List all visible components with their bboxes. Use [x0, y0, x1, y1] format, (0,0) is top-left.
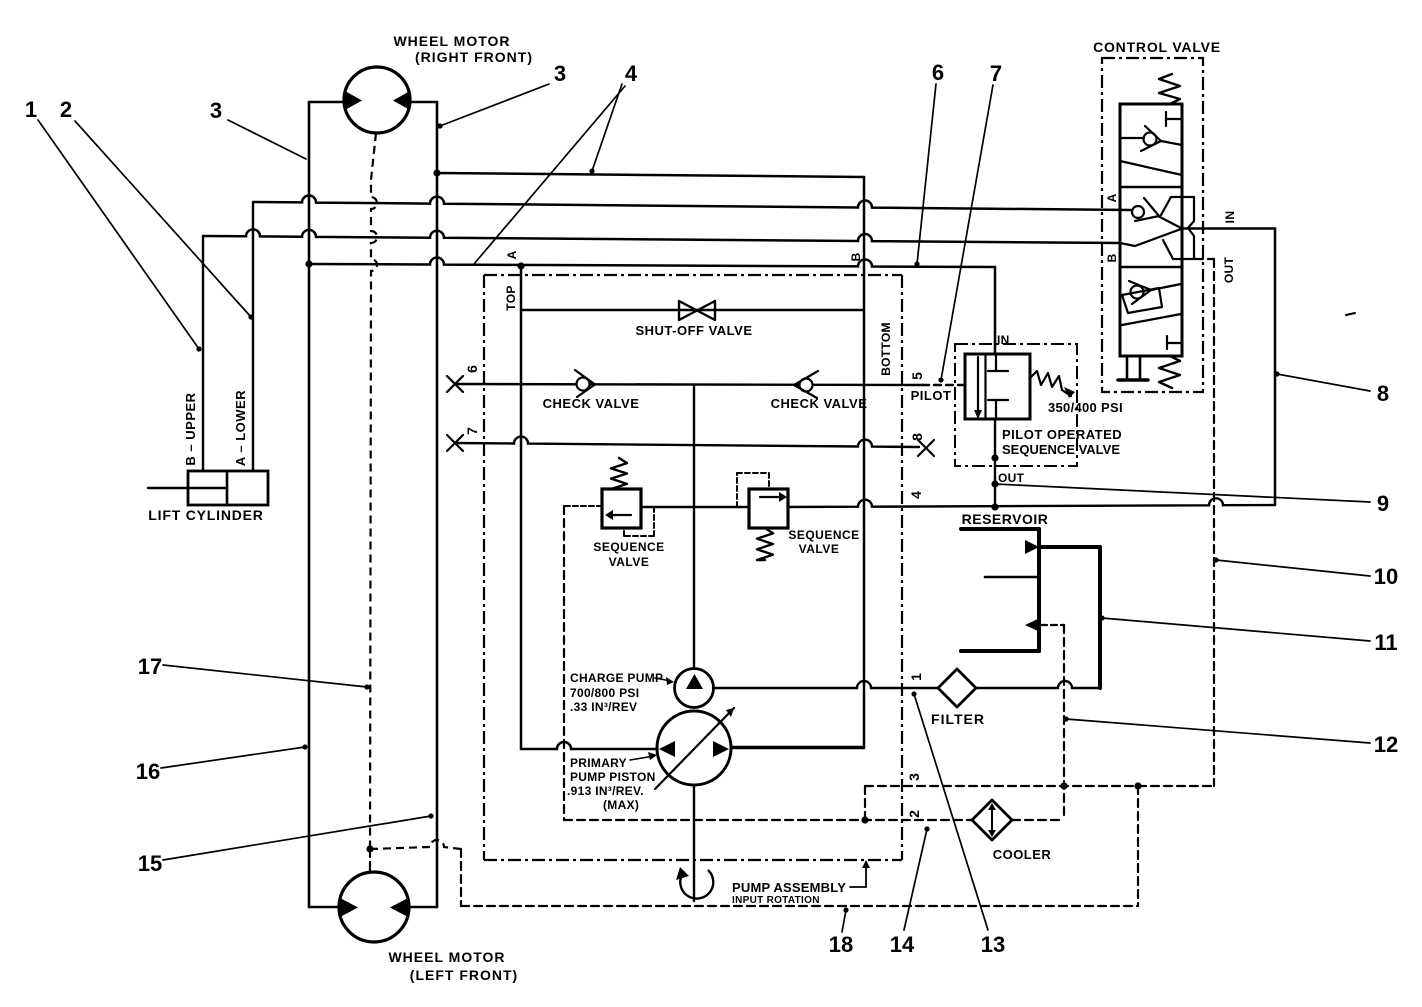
svg-text:CHECK VALVE: CHECK VALVE — [543, 396, 640, 411]
svg-text:(LEFT FRONT): (LEFT FRONT) — [410, 967, 518, 983]
svg-text:12: 12 — [1374, 732, 1398, 757]
svg-text:SEQUENCE VALVE: SEQUENCE VALVE — [1002, 442, 1120, 457]
svg-text:WHEEL MOTOR: WHEEL MOTOR — [393, 33, 510, 49]
svg-text:15: 15 — [138, 851, 162, 876]
svg-text:(MAX): (MAX) — [603, 798, 639, 812]
svg-text:3: 3 — [210, 98, 222, 123]
svg-text:2: 2 — [906, 810, 922, 818]
svg-text:1: 1 — [908, 673, 924, 681]
svg-text:B: B — [849, 252, 863, 261]
svg-text:PUMP PISTON: PUMP PISTON — [570, 770, 656, 784]
svg-text:8: 8 — [909, 433, 925, 441]
svg-text:.913 IN³/REV.: .913 IN³/REV. — [567, 784, 644, 798]
svg-text:A: A — [505, 250, 519, 259]
svg-text:11: 11 — [1374, 630, 1397, 655]
svg-text:FILTER: FILTER — [931, 711, 985, 727]
svg-text:B – UPPER: B – UPPER — [183, 392, 198, 465]
svg-text:IN: IN — [1223, 211, 1237, 224]
svg-text:INPUT ROTATION: INPUT ROTATION — [732, 895, 820, 906]
svg-text:4: 4 — [908, 491, 924, 499]
svg-text:COOLER: COOLER — [993, 847, 1052, 862]
svg-text:7: 7 — [464, 427, 480, 435]
svg-text:BOTTOM: BOTTOM — [879, 322, 893, 376]
svg-text:WHEEL MOTOR: WHEEL MOTOR — [388, 949, 505, 965]
svg-text:18: 18 — [829, 932, 853, 957]
svg-text:CONTROL VALVE: CONTROL VALVE — [1093, 39, 1221, 55]
svg-text:OUT: OUT — [998, 471, 1025, 485]
svg-text:CHECK VALVE: CHECK VALVE — [771, 396, 868, 411]
svg-text:CHARGE PUMP: CHARGE PUMP — [570, 671, 663, 685]
svg-text:PILOT OPERATED: PILOT OPERATED — [1002, 427, 1122, 442]
svg-text:B: B — [1105, 253, 1119, 262]
svg-text:.33 IN³/REV: .33 IN³/REV — [570, 700, 637, 714]
svg-text:PUMP ASSEMBLY: PUMP ASSEMBLY — [732, 880, 846, 895]
svg-text:8: 8 — [1377, 381, 1389, 406]
svg-text:6: 6 — [464, 365, 480, 373]
svg-text:PRIMARY: PRIMARY — [570, 756, 627, 770]
svg-text:2: 2 — [60, 97, 72, 122]
svg-text:VALVE: VALVE — [799, 542, 840, 556]
svg-text:7: 7 — [990, 61, 1002, 86]
svg-text:LIFT CYLINDER: LIFT CYLINDER — [148, 507, 263, 523]
svg-text:SEQUENCE: SEQUENCE — [788, 528, 859, 542]
svg-text:IN: IN — [997, 333, 1010, 347]
svg-text:1: 1 — [25, 97, 37, 122]
svg-text:14: 14 — [890, 932, 915, 957]
svg-text:RESERVOIR: RESERVOIR — [962, 511, 1049, 527]
svg-text:SHUT-OFF VALVE: SHUT-OFF VALVE — [635, 323, 752, 338]
svg-text:TOP: TOP — [504, 285, 518, 310]
svg-text:(RIGHT FRONT): (RIGHT FRONT) — [415, 49, 533, 65]
svg-text:OUT: OUT — [1222, 257, 1236, 284]
svg-text:3: 3 — [554, 61, 566, 86]
svg-text:17: 17 — [138, 654, 162, 679]
svg-text:SEQUENCE: SEQUENCE — [593, 540, 664, 554]
svg-text:13: 13 — [981, 932, 1005, 957]
svg-text:4: 4 — [625, 61, 638, 86]
svg-text:A – LOWER: A – LOWER — [233, 390, 248, 466]
svg-text:700/800 PSI: 700/800 PSI — [570, 686, 639, 700]
svg-text:A: A — [1105, 193, 1119, 202]
svg-text:VALVE: VALVE — [609, 555, 650, 569]
svg-text:10: 10 — [1374, 564, 1398, 589]
svg-text:350/400 PSI: 350/400 PSI — [1048, 400, 1123, 415]
svg-text:5: 5 — [909, 372, 925, 380]
svg-text:PILOT: PILOT — [911, 388, 952, 403]
svg-text:9: 9 — [1377, 491, 1389, 516]
svg-text:6: 6 — [932, 60, 944, 85]
svg-text:3: 3 — [906, 773, 922, 781]
svg-text:16: 16 — [136, 759, 160, 784]
